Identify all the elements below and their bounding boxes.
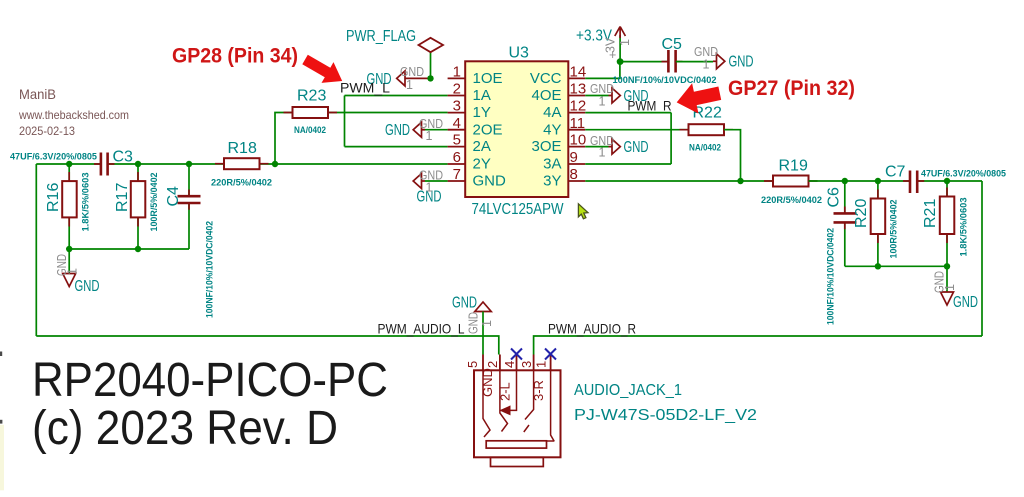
capacitor C6	[826, 187, 857, 325]
wire C7 to corner	[917, 180, 982, 182]
wire pin 11 to R22	[585, 129, 688, 131]
svg-text:3: 3	[519, 361, 534, 368]
svg-text:1.8K/5%/0603: 1.8K/5%/0603	[81, 173, 91, 232]
pin 1 sleeve connection	[547, 370, 555, 441]
svg-text:PWR_FLAG: PWR_FLAG	[346, 28, 416, 45]
wire bottom rail R16/R17/C4	[69, 248, 189, 250]
pin 12 4A	[543, 98, 586, 122]
svg-text:R16: R16	[45, 183, 62, 212]
wire top-left horizontal net (2Y output filter)	[36, 163, 100, 165]
wire R19 to C7	[809, 180, 910, 182]
svg-text:C6: C6	[826, 187, 843, 208]
no-connect X pin 1	[545, 349, 556, 360]
svg-text:2A: 2A	[473, 138, 491, 155]
svg-text:2Y: 2Y	[473, 156, 491, 173]
svg-text:4A: 4A	[543, 104, 561, 121]
junction R22/3Y	[737, 178, 743, 184]
svg-text:1: 1	[703, 58, 710, 72]
svg-text:1: 1	[618, 39, 632, 46]
svg-text:13: 13	[570, 81, 587, 98]
svg-text:100NF/10%/10VDC/0402: 100NF/10%/10VDC/0402	[613, 75, 717, 85]
pin 4 2OE	[422, 115, 503, 139]
svg-text:11: 11	[570, 115, 586, 132]
capacitor C7	[885, 164, 1006, 194]
pin 13 4OE	[531, 81, 612, 105]
pin 5 2A	[448, 132, 491, 156]
svg-text:220R/5%/0402: 220R/5%/0402	[761, 195, 822, 205]
svg-text:C4: C4	[165, 186, 182, 207]
pin 9 3A	[543, 149, 585, 172]
svg-text:4: 4	[502, 361, 517, 368]
resistor R18	[211, 140, 272, 188]
junction dots left net	[66, 161, 72, 167]
pin 10 3OE	[531, 132, 612, 156]
svg-text:2: 2	[453, 81, 461, 98]
wire C3 right to R18	[108, 163, 224, 165]
svg-text:GND: GND	[624, 139, 649, 156]
svg-text:1.8K/5%/0603: 1.8K/5%/0603	[959, 198, 969, 257]
svg-text:4Y: 4Y	[543, 121, 561, 138]
connector AUDIO_JACK_1 PJ-W47S-05D2-LF_V2	[465, 349, 757, 467]
svg-text:2025-02-13: 2025-02-13	[19, 124, 75, 138]
svg-text:47UF/6.3V/20%/0805: 47UF/6.3V/20%/0805	[10, 152, 97, 162]
svg-text:4OE: 4OE	[531, 87, 561, 104]
svg-text:R23: R23	[297, 88, 326, 105]
svg-text:GND: GND	[452, 295, 477, 312]
pin 1 stub	[550, 355, 552, 371]
svg-text:GND: GND	[75, 278, 100, 295]
pin 11 4Y	[543, 115, 585, 139]
svg-text:2: 2	[485, 361, 500, 368]
svg-text:1: 1	[943, 284, 957, 291]
pin 2 1A	[448, 81, 491, 105]
svg-text:GND: GND	[473, 173, 507, 190]
ground at C5	[694, 45, 754, 72]
svg-text:1: 1	[426, 129, 433, 143]
pin 5 internal contact	[483, 370, 490, 437]
svg-text:PJ-W47S-05D2-LF_V2: PJ-W47S-05D2-LF_V2	[574, 407, 757, 424]
ground under R21	[933, 266, 979, 311]
svg-text:3: 3	[453, 98, 461, 115]
resistor R21	[922, 188, 969, 257]
capacitor C5	[613, 36, 717, 85]
ground at pin 4	[385, 117, 443, 143]
svg-text:5: 5	[453, 132, 461, 149]
annotation arrow GP27	[677, 83, 722, 113]
svg-text:10: 10	[570, 132, 587, 149]
svg-text:NA/0402: NA/0402	[689, 143, 721, 153]
pin 3 internal contact	[524, 370, 534, 432]
wire R22 down to 3Y net	[724, 130, 741, 181]
svg-text:GND: GND	[400, 65, 424, 79]
svg-text:VCC: VCC	[530, 70, 562, 87]
pin 14 VCC	[530, 64, 586, 88]
ground at pin 10	[590, 134, 649, 160]
svg-text:3Y: 3Y	[543, 173, 561, 190]
svg-text:C5: C5	[662, 36, 683, 53]
svg-text:PWM_L: PWM_L	[340, 80, 390, 96]
wire C4 branch	[188, 164, 190, 195]
svg-text:100NF/10%/10VDC/0402: 100NF/10%/10VDC/0402	[826, 228, 836, 325]
svg-text:R18: R18	[228, 140, 257, 157]
pin 6 2Y	[448, 149, 491, 172]
svg-text:ManiB: ManiB	[19, 86, 56, 102]
wire C6 branch	[844, 181, 846, 213]
svg-text:R21: R21	[922, 199, 939, 228]
wire R20 branch	[877, 181, 879, 199]
junction node pin1	[427, 75, 433, 81]
svg-text:NA/0402: NA/0402	[294, 125, 326, 135]
mouse cursor	[578, 204, 588, 219]
wire bottom rail C6/R20/R21	[845, 265, 947, 267]
pin 3 stub	[533, 355, 535, 371]
wire vertical tie to pin 9	[585, 163, 671, 165]
capacitor C4	[165, 186, 215, 318]
svg-text:220R/5%/0402: 220R/5%/0402	[211, 178, 272, 188]
svg-text:R20: R20	[853, 199, 870, 228]
svg-text:1: 1	[480, 320, 494, 327]
svg-text:U3: U3	[509, 45, 530, 62]
svg-text:PWM_R: PWM_R	[628, 98, 672, 114]
pin 4 internal switch arm	[510, 370, 517, 410]
svg-text:9: 9	[570, 149, 578, 166]
svg-text:4: 4	[453, 115, 461, 132]
ground at pin 13	[590, 82, 649, 109]
svg-text:1: 1	[453, 64, 461, 81]
svg-text:3OE: 3OE	[531, 138, 561, 155]
svg-text:GP28 (Pin 34): GP28 (Pin 34)	[172, 44, 298, 68]
svg-text:GND: GND	[467, 312, 481, 334]
jack bottom tab	[491, 457, 544, 466]
wire left vertical of big loop	[35, 164, 37, 336]
wire vertical tying pins 2 and 5	[344, 96, 346, 147]
wire pin 14 to +3.3V node	[585, 62, 620, 79]
wire bottom PWM_AUDIO_R run	[534, 336, 982, 355]
wire +3.3V node to C5	[620, 61, 668, 63]
capacitor C3	[10, 149, 133, 176]
svg-text:100R/5%/0402: 100R/5%/0402	[889, 200, 899, 259]
annotation arrow GP28	[302, 55, 342, 83]
op-amp buffer U3 74LVC125APW body	[465, 45, 568, 219]
svg-text:3-R: 3-R	[531, 380, 546, 401]
svg-text:R17: R17	[114, 183, 131, 212]
svg-text:GND: GND	[480, 368, 495, 397]
wire R16 branch	[68, 164, 70, 181]
svg-text:1Y: 1Y	[473, 104, 491, 121]
svg-text:GND: GND	[729, 54, 754, 71]
svg-text:1: 1	[406, 78, 413, 92]
wire C5 to ground	[676, 61, 713, 63]
svg-text:47UF/6.3V/20%/0805: 47UF/6.3V/20%/0805	[921, 169, 1006, 179]
svg-text:3A: 3A	[543, 156, 561, 173]
resistor R16	[45, 172, 91, 232]
jack body outline	[474, 370, 561, 457]
svg-text:100NF/10%/10VDC/0402: 100NF/10%/10VDC/0402	[205, 221, 215, 318]
pin 3 1Y	[448, 98, 491, 122]
svg-text:(c) 2023 Rev. D: (c) 2023 Rev. D	[32, 402, 338, 455]
svg-text:1: 1	[426, 181, 433, 195]
svg-text:GP27 (Pin 32): GP27 (Pin 32)	[728, 76, 855, 100]
wire to chip pin 2	[345, 95, 448, 97]
no-connect X pin 4	[511, 349, 522, 360]
svg-text:14: 14	[570, 64, 587, 81]
wire R21 branch	[946, 181, 948, 197]
svg-text:1: 1	[599, 95, 606, 109]
pin 4 stub	[516, 355, 518, 371]
power +3.3V	[576, 27, 632, 63]
ground at pin 1	[367, 65, 431, 92]
wire to chip pin 5	[345, 146, 448, 148]
svg-text:PWM_AUDIO_R: PWM_AUDIO_R	[548, 321, 636, 337]
resistor R22	[680, 105, 734, 153]
svg-text:5: 5	[465, 361, 480, 368]
svg-text:100R/5%/0402: 100R/5%/0402	[149, 173, 159, 232]
wire bottom PWM_AUDIO_L run	[36, 336, 499, 355]
svg-text:www.thebackshed.com: www.thebackshed.com	[18, 108, 129, 122]
wire pin 12 to vertical tie	[585, 112, 671, 114]
pin 2 stub	[499, 355, 501, 371]
svg-text:+: +	[609, 48, 616, 62]
resistor R23	[284, 88, 338, 136]
svg-text:GND: GND	[385, 122, 410, 139]
resistor R19	[761, 158, 822, 206]
svg-text:7: 7	[453, 166, 461, 183]
svg-text:1: 1	[66, 268, 80, 275]
svg-text:C7: C7	[885, 164, 906, 181]
svg-text:8: 8	[570, 166, 578, 183]
svg-text:12: 12	[570, 98, 587, 115]
svg-text:2-L: 2-L	[498, 382, 513, 401]
pin 8 3Y	[543, 166, 585, 190]
ground under R16	[55, 249, 100, 295]
edge fragment dash 2	[0, 420, 2, 424]
svg-text:R19: R19	[779, 158, 808, 175]
junction node +3.3V	[617, 58, 624, 65]
svg-text:1A: 1A	[473, 87, 491, 104]
svg-text:RP2040-PICO-PC: RP2040-PICO-PC	[32, 354, 388, 407]
wire R17 branch	[137, 164, 139, 181]
svg-text:C3: C3	[113, 149, 134, 166]
pin 7 GND	[422, 166, 507, 190]
pin 5 stub	[482, 355, 484, 371]
wire R23 output to pin 3	[329, 112, 448, 114]
resistor R20	[853, 190, 899, 259]
wire R23 input branch vertical	[275, 113, 293, 165]
pin 1 1OE	[448, 64, 503, 88]
svg-text:AUDIO_JACK_1: AUDIO_JACK_1	[574, 382, 682, 399]
PWR_FLAG	[346, 28, 443, 78]
wire vertical tying pins 12 and 9	[670, 113, 672, 164]
wire right vertical of big loop	[981, 181, 983, 336]
svg-text:2OE: 2OE	[473, 121, 503, 138]
pin 2 internal contact	[500, 370, 508, 431]
wire R18 to chip pin 6	[260, 163, 448, 165]
pin 4 arrowhead	[501, 406, 511, 414]
svg-text:1: 1	[534, 361, 549, 368]
junction dots right net	[842, 178, 848, 184]
svg-text:6: 6	[453, 149, 461, 166]
ground at pin 7	[413, 169, 443, 206]
jack sleeve bar	[486, 441, 546, 448]
resistor R17	[114, 172, 159, 232]
edge fragment yellow strip	[0, 425, 4, 491]
svg-text:1: 1	[599, 146, 606, 160]
edge fragment dash	[0, 352, 2, 357]
svg-text:74LVC125APW: 74LVC125APW	[472, 201, 565, 218]
wire pin 8 to R19	[585, 180, 773, 182]
svg-text:PWM_AUDIO_L: PWM_AUDIO_L	[378, 321, 465, 337]
svg-text:1OE: 1OE	[473, 70, 503, 87]
svg-text:GND: GND	[953, 294, 978, 311]
ground at jack pin 5	[452, 295, 494, 355]
